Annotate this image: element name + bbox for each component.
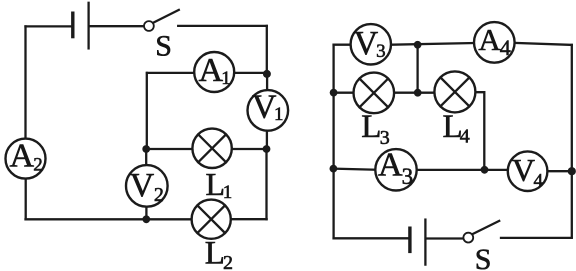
wire V1 bottom to node xyxy=(266,130,268,149)
wire V4 right xyxy=(547,170,571,172)
wire L3 left xyxy=(334,92,354,94)
svg-text:3: 3 xyxy=(376,41,386,62)
node junction (left of L1) xyxy=(142,145,150,153)
wire top-left stub to V3 xyxy=(334,44,351,46)
label L3 xyxy=(361,109,390,149)
wire middle vertical (node to node) xyxy=(416,45,418,93)
wire right vertical (right circuit) xyxy=(571,45,573,237)
lamp L4 xyxy=(434,71,475,112)
wire A1-branch vertical xyxy=(146,73,148,149)
wire V2 top stub xyxy=(145,149,147,165)
wire V2 bottom stub xyxy=(145,207,147,220)
node junction (right of V4) xyxy=(568,167,576,175)
lamp L1 xyxy=(192,129,231,168)
wire left vertical lower (A2 to bottom) xyxy=(25,179,27,220)
voltmeter V1 xyxy=(247,90,288,131)
svg-text:3: 3 xyxy=(380,127,390,149)
wire A4 right to corner xyxy=(515,43,572,45)
node junction (right of L1) xyxy=(263,145,271,153)
wire L1 right xyxy=(232,148,267,150)
svg-text:A: A xyxy=(10,137,35,174)
label V4 xyxy=(512,152,544,192)
switch S1 contact circle xyxy=(144,21,154,31)
node junction (top, right of V3) xyxy=(414,41,422,49)
wire L4 right and down xyxy=(475,92,484,170)
svg-text:2: 2 xyxy=(33,155,43,176)
svg-text:2: 2 xyxy=(154,184,164,206)
voltmeter V4 xyxy=(508,151,548,191)
wire right vertical upper (corner to node) xyxy=(266,26,268,74)
wire A3 left xyxy=(334,169,376,170)
wire after switch (right circuit) xyxy=(501,237,572,239)
svg-text:S: S xyxy=(155,29,172,62)
svg-text:V: V xyxy=(130,167,155,204)
svg-text:A: A xyxy=(378,147,403,184)
label A1 xyxy=(199,52,231,89)
battery B1 long plate xyxy=(87,3,89,49)
wire bottom horizontal (left circuit) xyxy=(26,218,193,220)
svg-text:V: V xyxy=(512,152,535,188)
label A3 xyxy=(378,147,413,189)
lamp L2 xyxy=(192,200,231,239)
svg-text:L: L xyxy=(361,109,381,145)
battery B2 short plate xyxy=(408,228,411,251)
svg-text:1: 1 xyxy=(223,182,233,203)
svg-text:1: 1 xyxy=(221,68,231,89)
lamp L3 xyxy=(354,73,395,114)
node junction (left of L3) xyxy=(330,89,338,97)
switch S2 blade xyxy=(473,221,500,234)
svg-text:A: A xyxy=(478,22,501,57)
label L2 xyxy=(205,236,233,271)
wire L3 to L4 xyxy=(394,92,434,94)
switch S1 blade xyxy=(153,10,178,23)
battery B2 long plate xyxy=(424,220,426,265)
node junction (left of A3) xyxy=(330,165,338,173)
wire right vertical lower (node to L2) xyxy=(265,149,267,219)
label V1 xyxy=(252,89,284,126)
voltmeter V2 xyxy=(126,165,168,207)
ammeter A2 xyxy=(6,139,46,179)
wire battery to switch xyxy=(90,25,144,27)
label V3 xyxy=(354,25,386,62)
battery B1 short plate xyxy=(71,13,74,36)
wire L1 left xyxy=(146,148,193,150)
svg-text:4: 4 xyxy=(460,125,470,147)
ammeter A4 xyxy=(474,22,515,63)
wire top-left horizontal (left circuit) xyxy=(26,25,72,27)
svg-text:1: 1 xyxy=(274,104,284,125)
node junction (right of A1) xyxy=(263,70,271,78)
wire V3 to A4 xyxy=(393,43,475,45)
svg-text:L: L xyxy=(205,236,225,271)
node junction (right of A3) xyxy=(481,166,489,174)
wire bottom left (right circuit) xyxy=(334,237,409,239)
ammeter A3 xyxy=(375,149,416,190)
svg-text:A: A xyxy=(199,52,224,89)
label A4 xyxy=(478,22,510,60)
svg-text:V: V xyxy=(354,25,379,62)
svg-text:S: S xyxy=(475,243,492,271)
wire left vertical upper (to A2) xyxy=(24,26,26,138)
svg-text:4: 4 xyxy=(533,170,543,191)
voltmeter V3 xyxy=(351,24,391,64)
wire battery to switch (right circuit) xyxy=(427,237,463,239)
label L4 xyxy=(443,109,470,147)
node junction (between L3 and L4) xyxy=(414,89,422,97)
wire node to V1 top xyxy=(266,74,268,90)
wire L2 right xyxy=(231,218,267,220)
label L1 xyxy=(206,166,233,203)
svg-text:4: 4 xyxy=(500,35,511,60)
ammeter A1 xyxy=(194,52,234,92)
wire after switch to top-right corner xyxy=(178,25,267,27)
label V2 xyxy=(130,167,164,206)
node junction (bottom, below V2) xyxy=(142,215,150,223)
wire left vertical (right circuit) xyxy=(332,45,334,239)
wire A1 left xyxy=(147,72,194,74)
switch S2 contact circle xyxy=(463,233,473,243)
svg-text:2: 2 xyxy=(223,252,233,271)
wire A1 right xyxy=(234,72,267,74)
wire A3 to V4 xyxy=(417,169,508,171)
svg-text:3: 3 xyxy=(402,164,414,189)
label A2 xyxy=(10,137,43,175)
